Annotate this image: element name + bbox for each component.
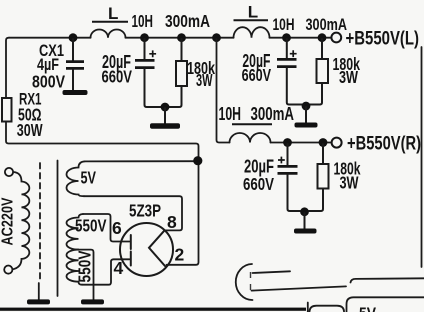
svg-text:550V: 550V <box>75 250 95 282</box>
wire bottom tick <box>307 303 309 312</box>
svg-text:3W: 3W <box>196 70 213 90</box>
wire top B+ rail left segment <box>9 37 91 39</box>
label RX1 <box>19 91 42 109</box>
label 660V (section 1) <box>102 67 133 87</box>
wire cropped right-edge vertical <box>421 47 423 267</box>
output tube base dashes <box>250 272 252 290</box>
wire right-channel rail segment <box>271 142 332 144</box>
capacitor C1 20uF <box>135 39 161 107</box>
svg-text:4: 4 <box>114 258 124 278</box>
label 10H (right choke) <box>273 15 295 34</box>
resistor R3 180k <box>309 144 329 211</box>
wire output tube upper outline <box>253 271 291 273</box>
label 4uF <box>37 55 59 74</box>
ground for section 2 <box>295 107 318 128</box>
ground for center tap <box>81 299 104 304</box>
ground for section 3 <box>294 213 317 234</box>
resistor RX1 <box>2 98 12 122</box>
svg-text:10H: 10H <box>132 11 154 31</box>
capacitor C2 20uF <box>277 39 302 105</box>
label 20uF (section 1) <box>102 52 131 72</box>
label 550V (lower winding, vertical) <box>75 250 95 282</box>
label 5V (partial, bottom right) <box>359 304 377 312</box>
node top rail branch to right channel <box>212 33 221 42</box>
node section 2 ground junction <box>302 102 311 111</box>
svg-text:660V: 660V <box>102 67 133 87</box>
ground for CX1 <box>63 90 88 95</box>
resistor R1 180k <box>169 39 187 107</box>
output tube envelope dome (partial, bottom right) <box>236 264 253 300</box>
winding 550V upper <box>66 214 83 250</box>
filament of 5Z3P <box>149 230 165 266</box>
ground for section 1 <box>150 108 180 129</box>
svg-text:L: L <box>248 2 258 21</box>
inductor L (right choke) coil <box>234 27 270 38</box>
svg-text:300mA: 300mA <box>165 11 210 31</box>
node section 1 ground junction <box>161 103 170 112</box>
label 3W (section 3) <box>340 173 359 193</box>
label 180k (section 2) <box>333 54 361 74</box>
transformer primary terminal lower <box>4 266 12 274</box>
label 180k (section 1) <box>187 58 215 78</box>
svg-text:+B550V(R): +B550V(R) <box>347 134 421 155</box>
wire 550V lower to pin 4 <box>82 259 130 284</box>
svg-text:L: L <box>108 4 118 23</box>
label 660V (section 2) <box>242 65 272 85</box>
transformer primary terminal upper <box>5 168 13 176</box>
label +B550V(R) <box>347 134 421 155</box>
svg-text:30W: 30W <box>17 120 43 140</box>
capacitor CX1 <box>66 39 84 91</box>
label +B550V(L) <box>346 29 420 50</box>
node R1 top junction <box>177 33 186 42</box>
label 10H (left choke) <box>132 11 154 31</box>
winding 550V lower <box>66 250 82 285</box>
svg-text:660V: 660V <box>243 174 274 194</box>
svg-text:5V: 5V <box>81 168 97 188</box>
label 50 ohm <box>18 104 42 124</box>
resistor R2 180k <box>310 39 328 105</box>
rectifier tube 5Z3P envelope <box>120 223 173 276</box>
node C1 top junction <box>140 33 149 42</box>
label AC220V <box>0 197 17 245</box>
terminal +B550V(R) <box>332 138 342 148</box>
label CX1 <box>39 41 64 60</box>
node R2 top junction <box>318 33 327 42</box>
transformer shield line <box>57 161 59 297</box>
svg-text:6: 6 <box>112 218 122 238</box>
pin label 4 <box>114 258 124 278</box>
label 30W <box>17 120 43 140</box>
wire output tube lower outline <box>252 286 347 290</box>
label L with overline (left choke) <box>92 4 128 23</box>
svg-text:800V: 800V <box>32 72 65 92</box>
label 5Z3P <box>129 201 161 221</box>
wire left vertical through RX1 down and across to filament node <box>6 38 199 265</box>
pin label 8 <box>167 212 177 232</box>
svg-text:660V: 660V <box>242 65 272 85</box>
wire heater line to right edge <box>351 278 424 282</box>
label 20uF (section 3) <box>244 157 274 177</box>
node R3 top junction <box>319 138 328 147</box>
wire top rail middle segment <box>126 37 234 39</box>
svg-text:300mA: 300mA <box>251 104 295 124</box>
label 3W (section 1) <box>196 70 213 90</box>
svg-text:3W: 3W <box>340 173 359 193</box>
svg-text:+B550V(L): +B550V(L) <box>346 29 420 50</box>
label 300mA (right choke) <box>306 15 348 34</box>
svg-text:3W: 3W <box>339 67 358 87</box>
label 10H (right-channel choke) <box>219 104 242 124</box>
label 660V (section 3) <box>243 174 274 194</box>
anode plate (pin 4) <box>130 252 132 266</box>
inductor L3 (right-channel choke) coil <box>230 133 271 143</box>
wire 550V upper to pin 6 <box>83 214 130 242</box>
large rounded box (partial, bottom right) <box>347 297 424 312</box>
node section 3 ground junction <box>300 207 309 216</box>
wire 5V top to filament node <box>85 160 199 162</box>
node filament B+ takeoff <box>193 156 202 165</box>
svg-text:5Z3P: 5Z3P <box>129 201 161 221</box>
label 800V <box>32 72 65 92</box>
svg-text:550V: 550V <box>75 215 107 235</box>
label 3W (section 2) <box>339 67 358 87</box>
svg-text:AC220V: AC220V <box>0 197 17 245</box>
label 300mA with underline (right-channel choke) <box>232 104 294 124</box>
pin label 2 <box>175 245 185 265</box>
wire branch down to right-channel choke row <box>217 39 230 143</box>
winding 5V (filament) <box>67 161 85 196</box>
svg-text:8: 8 <box>167 212 177 232</box>
svg-text:5V: 5V <box>359 304 377 312</box>
svg-text:10H: 10H <box>219 104 242 124</box>
transformer primary winding AC220V <box>12 172 29 269</box>
terminal +B550V(L) <box>331 33 341 43</box>
inductor L (left choke) coil <box>91 30 126 38</box>
label 5V <box>81 168 97 188</box>
label 550V (upper winding) <box>75 215 107 235</box>
wire thick bottom bus <box>0 308 306 311</box>
pin label 6 <box>112 218 122 238</box>
svg-text:2: 2 <box>175 245 185 265</box>
node C3 top junction <box>283 138 292 147</box>
svg-text:300mA: 300mA <box>306 15 348 34</box>
anode plate (pin 6) <box>130 235 132 249</box>
label 180k (section 3) <box>334 159 361 179</box>
label 20uF (section 2) <box>242 51 270 71</box>
small rounded box (partial, bottom) <box>310 306 345 312</box>
ground for transformer core <box>27 299 50 304</box>
label 300mA (left choke) <box>165 11 210 31</box>
label L with overline (right choke) <box>234 2 269 21</box>
wire top rail right segment <box>270 37 332 39</box>
svg-text:10H: 10H <box>273 15 295 34</box>
wire center tap to ground <box>76 250 94 300</box>
capacitor C3 20uF <box>278 144 301 211</box>
transformer core dashed line <box>39 163 40 300</box>
node CX1 top junction <box>69 33 78 42</box>
wire 5V bottom to pin 8 <box>84 196 182 230</box>
node C2 top junction <box>282 33 291 42</box>
